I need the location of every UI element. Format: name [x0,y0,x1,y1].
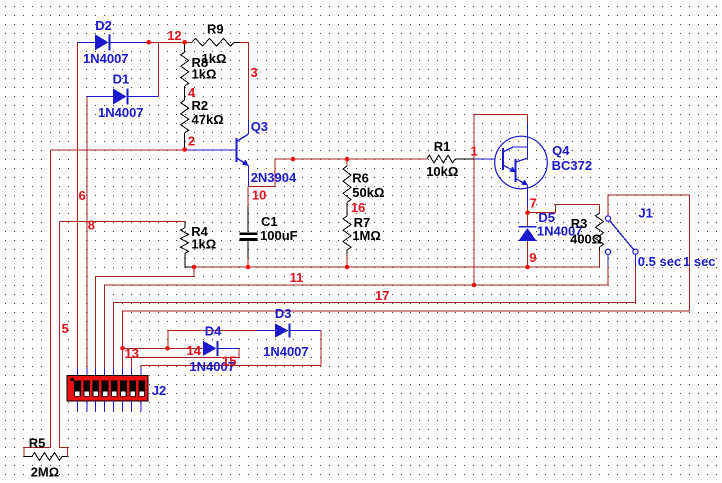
label R1 [434,139,451,154]
svg-text:50kΩ: 50kΩ [352,185,384,200]
svg-text:10kΩ: 10kΩ [426,164,458,179]
resistor R6 [343,166,351,203]
rail net 11 [194,266,600,268]
label R6 [352,171,369,186]
net label 8 [88,218,95,233]
value D2 1N4007 [83,51,129,66]
resistor R7 [343,203,351,255]
svg-text:9: 9 [529,250,536,265]
svg-text:16: 16 [351,200,365,215]
transistor Q4 [495,136,548,189]
value D3 1N4007 [263,344,309,359]
svg-text:14: 14 [187,343,202,358]
svg-text:1: 1 [471,144,478,159]
junction node 12 left [146,40,151,45]
svg-text:Q4: Q4 [552,143,570,158]
junction node 10 [291,157,296,162]
net label 10 [252,188,266,203]
label D1 [113,72,130,87]
value R7 1M&#937; [352,228,380,243]
net label 3 [251,65,258,80]
svg-text:1N4007: 1N4007 [83,51,129,66]
net label 1 [471,144,478,159]
svg-text:R1: R1 [434,139,451,154]
wire net 7 to R3 [528,205,600,214]
wire net 15 D3 cathode loop [141,331,321,376]
svg-text:3: 3 [251,65,258,80]
wire net 8 horizontal to R4 [60,221,186,223]
diode D1 [113,89,128,105]
diode D3 [275,324,290,338]
junction node 7 [525,210,530,215]
value C1 100uF [260,228,298,243]
svg-text:J2: J2 [152,383,166,398]
net label 2 [188,134,195,149]
svg-text:D4: D4 [205,324,222,339]
value Q3 2N3904 [251,170,297,185]
svg-text:4: 4 [188,85,196,100]
svg-text:R3: R3 [571,216,588,231]
wire R7 bottom stub [346,254,348,267]
label R8 [192,55,209,70]
svg-text:8: 8 [88,218,95,233]
wire net 2 blue segment to Q3 base [185,149,236,151]
value D4 1N4007 [189,359,235,374]
svg-text:6: 6 [79,188,86,203]
label R9 [207,22,224,37]
diode D2 [95,34,110,50]
resistor R4 [181,222,195,268]
diode D4 [203,341,218,356]
svg-text:J1: J1 [638,206,652,221]
wire J1 common terminal stub blue [607,216,609,219]
svg-text:1kΩ: 1kΩ [192,67,217,82]
transistor Q3 [237,134,249,166]
wire net 2 horizontal Q3 base [51,149,186,151]
svg-text:1kΩ: 1kΩ [191,237,216,252]
svg-text:47kΩ: 47kΩ [192,112,224,127]
svg-text:2N3904: 2N3904 [251,170,297,185]
wire riser D1 to top wire [157,42,159,96]
junction R6 top [345,157,350,162]
svg-text:Q3: Q3 [251,119,268,134]
junction R7 bottom [345,265,350,270]
net label 17 [375,288,389,303]
DIP switch J2 [67,376,148,402]
net label 9 [529,250,536,265]
wire D1 cathode to riser [128,96,159,98]
junction C1 bottom [246,265,251,270]
resistor R9 [192,38,240,46]
value R8 1k&#937; [192,67,217,82]
net label 11 [290,270,304,285]
label R5 [29,436,46,451]
svg-text:1N4007: 1N4007 [263,344,309,359]
wire D2 cathode to node 12 [111,41,149,43]
junction node 13 [120,346,125,351]
net label 16 [351,200,365,215]
label J1 [638,206,652,221]
wire net D1 vertical (D1 anode to J2 pin2) [86,97,88,370]
wire D4 cathode blue [218,347,239,349]
net label 13 [125,346,139,361]
wire R3 bottom stub [599,251,601,267]
wire J1 right terminal stub blue [635,254,637,266]
wire C1 bottom stub [247,258,249,267]
label R7 [354,215,371,230]
rail net 9 bottom [105,266,608,369]
svg-text:10: 10 [252,188,266,203]
svg-text:D3: D3 [275,306,292,321]
label C1 [261,214,278,229]
svg-text:1N4007: 1N4007 [98,105,144,120]
junction D5 anode [525,265,530,270]
wire net 9 Q4 collector loop [474,114,528,285]
wire D2 anode [77,41,95,43]
value R9 1k&#937; [202,51,227,66]
wire Q3 collector pin [247,120,249,134]
wire D3 anode blue [257,330,276,332]
svg-text:11: 11 [290,270,304,285]
svg-text:13: 13 [125,346,139,361]
J2 top pins [77,368,141,376]
label R3 [571,216,588,231]
resistor R8 [181,42,189,86]
wire net 3 R9 to Q3 collector [240,42,248,120]
net label 6 [79,188,86,203]
net label 15 [222,354,236,369]
wire net 7 emitter to D5 [527,207,529,227]
svg-text:R9: R9 [207,22,224,37]
value R4 1k&#937; [191,237,216,252]
value R5 2M&#937; [31,465,59,480]
wire net 5 vertical (Q3 base to R5 left) [24,150,51,457]
label D3 [275,306,292,321]
wire net 15 D4 cathode loop [132,348,239,375]
wire J1 left terminal stub blue [607,254,609,266]
svg-text:R6: R6 [352,171,369,186]
wire Q3 emitter net to node 10 [248,159,427,187]
value D5 1N4007 [537,224,583,239]
wire D3 cathode blue [290,330,322,332]
net label 14 [187,343,202,358]
label Q4 [552,143,570,158]
net label 7 [530,195,537,210]
value R6 50k&#937; [352,185,384,200]
rail net 17 [113,266,635,369]
resistor R3 [596,213,604,251]
value D1 1N4007 [98,105,144,120]
svg-text:15: 15 [222,354,236,369]
svg-text:100uF: 100uF [260,228,298,243]
wire net 13 to diode anodes [123,347,204,349]
value R1 10k&#937; [426,164,458,179]
wire Q4 collector pin [527,123,529,159]
svg-text:7: 7 [530,195,537,210]
value Q4 BC372 [552,158,592,173]
junction node 12 right [182,40,187,45]
net label 5 [62,321,69,336]
wire net 8 vertical (R4 top to R5 right) [60,222,68,457]
resistor R2 [181,86,189,150]
svg-text:C1: C1 [261,214,278,229]
rail net 13 outer loop via J1 box [123,195,690,369]
svg-text:1MΩ: 1MΩ [352,228,380,243]
svg-text:D2: D2 [95,18,112,33]
wire R1 right lead black [455,158,474,160]
label R2 [192,98,209,113]
label 1 sec [683,254,716,269]
wire Q4 emitter pin [527,185,529,207]
svg-text:R2: R2 [192,98,209,113]
label D4 [205,324,222,339]
svg-text:2: 2 [188,134,195,149]
wire D5 anode to rail 11 [527,241,529,267]
label D2 [95,18,112,33]
wire net 11 jog to left riser [95,267,194,369]
junction D3 branch [165,346,170,351]
label D5 [538,210,555,225]
svg-text:400Ω: 400Ω [570,232,602,247]
value R3 400&#937; [570,232,602,247]
wire Q4 base pin [474,158,495,160]
svg-text:0.5 sec: 0.5 sec [638,254,681,269]
svg-text:5: 5 [62,321,69,336]
diode D5 [519,227,537,241]
svg-text:R5: R5 [29,436,46,451]
svg-text:12: 12 [167,28,181,43]
svg-text:2MΩ: 2MΩ [31,465,59,480]
svg-text:D1: D1 [113,72,130,87]
value R2 47k&#937; [192,112,224,127]
J2 bottom pins [77,401,141,412]
wire C1 top stub [247,187,249,207]
svg-text:1 sec: 1 sec [683,254,716,269]
wire net 6 vertical (D2 anode to J2 pin1) [76,42,78,369]
wire branch to D3 anode [168,331,257,349]
svg-text:17: 17 [375,288,389,303]
svg-text:BC372: BC372 [552,158,592,173]
resistor R1 [427,155,455,163]
junction net 9 rail [472,283,477,288]
label J2 [152,383,166,398]
net label 4 [188,85,196,100]
wire R6 top stub [346,159,348,166]
label R4 [191,224,208,239]
capacitor C1 [240,207,258,259]
net label 12 [167,28,181,43]
junction node 2 [182,147,187,152]
switch J1 [605,216,638,254]
junction R4 bottom [192,265,197,270]
label Q3 [251,119,268,134]
label 0.5 sec [638,254,681,269]
wire D1 anode [87,96,113,98]
resistor R5 [24,453,68,461]
wire node 12 segment [149,41,192,43]
wire Q3 emitter pin [247,166,249,187]
